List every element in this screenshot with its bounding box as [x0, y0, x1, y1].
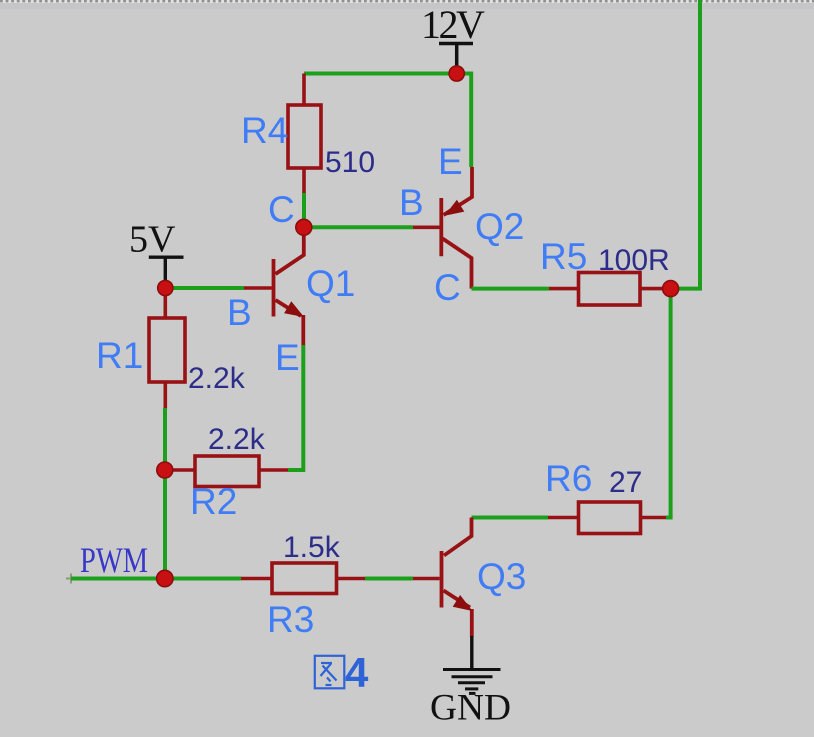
- svg-text:R5: R5: [540, 236, 587, 277]
- svg-text:Q1: Q1: [306, 263, 355, 304]
- svg-text:R4: R4: [241, 110, 288, 151]
- svg-text:B: B: [227, 292, 252, 333]
- port marker PWM input: [66, 574, 76, 584]
- node C junction dot: [296, 219, 312, 235]
- svg-text:R2: R2: [190, 481, 237, 522]
- svg-text:C: C: [268, 189, 295, 230]
- wire 5V node to Q1 base: [165, 286, 244, 290]
- resistor R2: [171, 456, 288, 487]
- wire Q1 emitter down to R2: [288, 345, 303, 470]
- svg-text:PWM: PWM: [80, 540, 148, 580]
- wire R1 bottom to R2 node: [163, 408, 167, 464]
- wire Q3 collector to R6: [472, 516, 549, 520]
- node R5 output junction dot: [663, 281, 679, 297]
- wire Q3 emitter to ground: [470, 636, 473, 669]
- svg-text:C: C: [434, 267, 461, 308]
- node 12V junction dot: [449, 66, 464, 81]
- wire R4 bottom to node C: [302, 193, 306, 221]
- svg-text:R3: R3: [267, 599, 314, 640]
- svg-text:Q3: Q3: [477, 556, 526, 597]
- svg-text:4: 4: [345, 649, 369, 696]
- wire 12V to Q2 emitter: [457, 74, 472, 168]
- figure caption 图4: [315, 656, 345, 689]
- transistor Q1: [274, 229, 304, 346]
- wire PWM input to node: [71, 577, 157, 581]
- node PWM junction dot: [157, 570, 173, 586]
- svg-text:B: B: [399, 182, 424, 223]
- power 12V symbol: [439, 44, 473, 70]
- wire right rail vertical: [671, 0, 700, 289]
- svg-text:5V: 5V: [129, 219, 176, 261]
- resistor R1: [149, 294, 185, 409]
- node 5V junction dot: [158, 280, 173, 295]
- wire R6 right elbow: [666, 516, 673, 520]
- wire stub Q2 base: [413, 226, 440, 230]
- transistor Q3: [442, 518, 472, 638]
- resistor R5: [549, 273, 664, 306]
- resistor R3: [241, 563, 365, 594]
- wire R3 to Q3 base: [365, 577, 413, 581]
- wire PWM node to R3: [165, 577, 241, 581]
- wire 12V rail horizontal to R4: [304, 72, 457, 76]
- wire stub Q3 base: [413, 577, 440, 581]
- svg-text:GND: GND: [430, 688, 511, 729]
- svg-text:R6: R6: [545, 458, 592, 499]
- wire Q2 collector to R5: [472, 287, 550, 291]
- svg-text:100R: 100R: [598, 244, 670, 277]
- power 5V symbol: [149, 257, 184, 283]
- wire node to R6 vertical: [669, 289, 673, 518]
- svg-text:2.2k: 2.2k: [188, 362, 246, 395]
- svg-text:E: E: [275, 337, 300, 378]
- node R2 junction dot: [157, 462, 173, 478]
- svg-text:E: E: [438, 141, 463, 182]
- svg-text:1.5k: 1.5k: [283, 531, 341, 564]
- svg-text:12V: 12V: [421, 2, 485, 47]
- transistor Q2: [441, 167, 472, 289]
- svg-text:510: 510: [325, 146, 375, 179]
- resistor R6: [548, 502, 666, 534]
- svg-text:2.2k: 2.2k: [208, 423, 266, 456]
- svg-text:27: 27: [609, 466, 642, 499]
- svg-text:R1: R1: [96, 335, 143, 376]
- resistor R4: [288, 74, 321, 195]
- ground: [443, 670, 501, 694]
- wire stub Q1 base: [244, 286, 272, 290]
- svg-text:Q2: Q2: [475, 206, 524, 247]
- wire R2 node down to PWM node: [163, 470, 167, 572]
- wire node C to Q2 base: [304, 225, 413, 229]
